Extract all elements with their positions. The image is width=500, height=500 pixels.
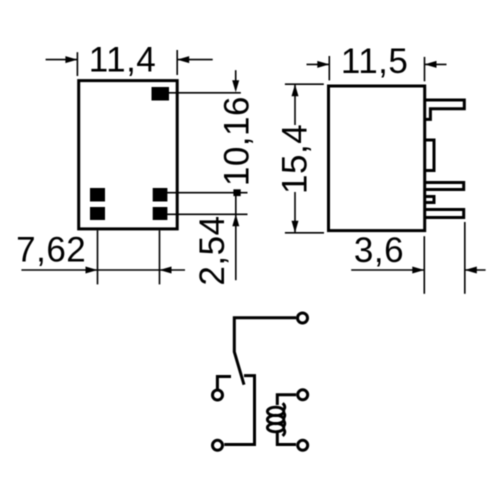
svg-text:11,5: 11,5 [341, 42, 409, 81]
svg-text:3,6: 3,6 [354, 231, 404, 270]
svg-text:15,4: 15,4 [276, 124, 315, 194]
svg-text:2,54: 2,54 [193, 215, 232, 285]
svg-text:7,62: 7,62 [16, 230, 86, 269]
svg-text:10,16: 10,16 [217, 96, 256, 186]
svg-text:11,4: 11,4 [89, 41, 157, 80]
